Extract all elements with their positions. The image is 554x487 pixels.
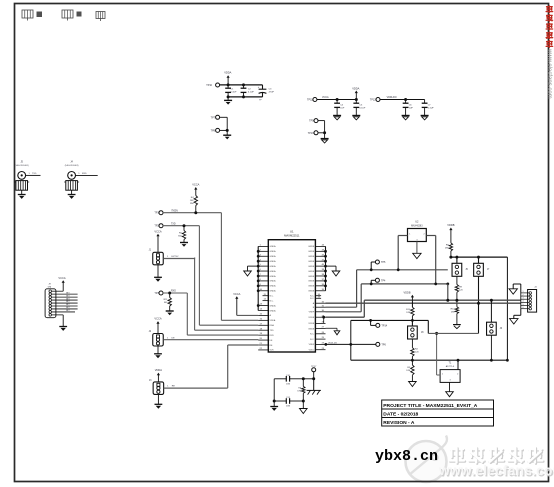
svg-text:N.C.: N.C.: [310, 339, 315, 341]
transformer T1 label: [446, 363, 455, 368]
svg-text:C4: C4: [340, 104, 344, 106]
svg-text:GNDB: GNDB: [308, 251, 315, 253]
ground J8 bottom hook: [510, 309, 521, 324]
test point TP1: [154, 211, 163, 215]
power flag VDDA J7: [155, 368, 162, 382]
svg-text:C3: C3: [269, 89, 273, 91]
wire J13 top riser: [490, 300, 492, 322]
wire J6 out: [163, 337, 258, 340]
svg-text:GNDA: GNDA: [270, 280, 277, 283]
svg-text:GNDB: GNDB: [308, 246, 315, 248]
wire VCCA to pin15: [237, 314, 258, 316]
resistor R2: [411, 339, 420, 360]
svg-text:3: 3: [523, 298, 524, 300]
wire TP10 to caps: [219, 83, 262, 86]
resistor R4: [190, 196, 198, 213]
svg-text:DATE - 02/2018: DATE - 02/2018: [383, 411, 418, 417]
svg-text:GNDA: GNDA: [270, 250, 277, 253]
title block revision: [383, 420, 415, 426]
svg-text:GNDB: GNDB: [308, 281, 315, 283]
svg-text:SLR: SLR: [270, 350, 275, 352]
svg-text:ADTT1-6: ADTT1-6: [446, 365, 455, 368]
diode block U2 body: [408, 229, 427, 242]
watermark logo swirl: [406, 436, 448, 483]
svg-text:0.1UF: 0.1UF: [359, 108, 366, 110]
svg-text:/TXEN: /TXEN: [171, 210, 178, 212]
svg-text:VCCA: VCCA: [58, 276, 65, 280]
wire T1 left leg: [435, 332, 440, 375]
top-left mark 3: [96, 12, 105, 22]
test point TP9: [309, 119, 318, 123]
capacitor C3 polarized: [258, 85, 275, 101]
ground TP9 TP13: [321, 133, 329, 143]
svg-text:DNI: DNI: [451, 312, 455, 314]
capacitor C7: [422, 100, 435, 116]
wire TP14 lead: [371, 320, 377, 325]
capacitor C2: [241, 85, 255, 97]
op-amp U1 body: [268, 240, 315, 352]
svg-text:VDDB: VDDB: [404, 292, 411, 295]
svg-text:RE: RE: [172, 386, 176, 388]
svg-text:1: 1: [523, 291, 524, 293]
svg-text:120: 120: [415, 352, 419, 354]
svg-text:TP6: TP6: [381, 343, 386, 346]
test point TP10: [206, 83, 219, 87]
ground J7: [155, 394, 163, 408]
svg-text:J3: J3: [149, 380, 152, 382]
op-amp U1 right pins: [308, 245, 325, 352]
svg-text:N.C.: N.C.: [270, 296, 275, 298]
jumper J13: [487, 322, 503, 335]
wire TP5 lead: [371, 262, 376, 270]
svg-text:DE: DE: [172, 337, 176, 339]
wire GNDA bus: [257, 246, 260, 310]
svg-text:GNDB: GNDB: [308, 256, 315, 258]
svg-text:T1: T1: [449, 363, 452, 365]
test point TP15: [311, 366, 317, 372]
wire Y line: [326, 268, 448, 307]
wire VCCA rail: [317, 98, 358, 101]
wire TXEN drop: [221, 213, 258, 321]
svg-text:DNI: DNI: [445, 248, 449, 250]
ground GNDB pin27: [326, 328, 340, 335]
svg-text:6: 6: [523, 307, 524, 309]
svg-text:DNI: DNI: [286, 406, 290, 408]
svg-text:RXD: RXD: [82, 173, 87, 175]
svg-text:1: 1: [78, 173, 80, 175]
svg-text:5: 5: [523, 304, 524, 306]
wire cap cluster left: [273, 379, 276, 403]
svg-text:DNI: DNI: [48, 286, 52, 288]
svg-text:EXT5V: EXT5V: [172, 256, 179, 258]
wire RT line: [349, 319, 428, 360]
svg-text:1: 1: [29, 173, 31, 175]
resistor R8: [445, 243, 453, 257]
svg-text:TP12: TP12: [370, 99, 376, 102]
wire B line: [326, 302, 521, 305]
ground R13: [453, 325, 461, 329]
power flag VDDA 2: [352, 86, 359, 99]
svg-text:N.C.: N.C.: [270, 300, 275, 302]
ground J1: [154, 265, 162, 282]
capacitor C4: [334, 100, 345, 116]
wire J8 pin bus: [521, 291, 529, 309]
wire J11 bottom run: [428, 332, 478, 334]
svg-text:N.C.: N.C.: [310, 334, 315, 336]
capacitor C1: [225, 85, 237, 97]
ground J9 header: [59, 315, 67, 331]
jumper J10: [452, 257, 468, 276]
wire J11 column: [478, 276, 480, 333]
svg-text:TP9: TP9: [309, 120, 314, 123]
svg-text:GNDA: GNDA: [270, 275, 277, 278]
svg-text:J6: J6: [500, 328, 503, 330]
ground R12: [409, 382, 417, 387]
op-amp U1 left pins: [258, 245, 276, 352]
svg-text:DNI: DNI: [406, 312, 410, 314]
ground C4: [333, 116, 341, 120]
svg-text:TXD: TXD: [270, 330, 275, 332]
red banner glyphs: [546, 6, 553, 47]
svg-text:C1: C1: [231, 89, 235, 91]
svg-text:TXD: TXD: [32, 173, 37, 175]
jumper J1: [149, 250, 164, 265]
jumper J6: [149, 331, 164, 346]
svg-text:10K: 10K: [190, 200, 194, 202]
svg-text:VDDB: VDDB: [447, 223, 454, 227]
svg-text:VCCA: VCCA: [233, 292, 240, 296]
svg-text:J9: J9: [48, 284, 51, 286]
ground GNDB hook: [326, 266, 340, 276]
wire J5 TXD: [26, 173, 41, 175]
wire J7 riser: [228, 345, 259, 388]
svg-text:0.1UF: 0.1UF: [428, 108, 435, 110]
wire RXD drop: [187, 293, 258, 335]
svg-text:GNDB: GNDB: [308, 286, 315, 288]
svg-text:VCCA: VCCA: [322, 96, 329, 99]
ground J8 top hook: [509, 284, 521, 294]
svg-text:GNDA: GNDA: [270, 304, 277, 307]
resistor R13: [451, 300, 459, 324]
wire J4 RXD: [76, 173, 98, 175]
test point TP8: [211, 128, 220, 132]
diode block U2 label: [411, 221, 423, 228]
svg-text:DNI: DNI: [190, 203, 194, 205]
power flag VCCA J6: [154, 317, 161, 334]
svg-text:(140-0701-801): (140-0701-801): [15, 165, 29, 167]
svg-text:VREF: VREF: [309, 344, 315, 346]
wire TP9 TP13 join: [318, 121, 326, 135]
svg-text:1UF: 1UF: [340, 108, 345, 110]
svg-text:VDDA: VDDA: [224, 71, 231, 75]
svg-text:TP17: TP17: [311, 366, 317, 368]
svg-text:GNDB: GNDB: [308, 266, 315, 268]
svg-text:VDDL: VDDL: [309, 350, 315, 352]
connector J5 (BNC): [14, 162, 29, 191]
wire TP15 lead: [303, 371, 315, 380]
wire TXD: [163, 223, 200, 227]
svg-text:VREF: VREF: [309, 312, 315, 314]
svg-text:GNDA: GNDA: [270, 265, 277, 268]
svg-text:VCCA: VCCA: [154, 229, 161, 233]
svg-text:TP11: TP11: [307, 99, 313, 102]
ground below C1: [224, 97, 232, 105]
wire VDDB rail drop: [506, 257, 508, 360]
top-left mark 2: [62, 10, 82, 21]
svg-text:120: 120: [459, 290, 463, 292]
svg-text:GNDB: GNDB: [308, 261, 315, 263]
svg-text:J4: J4: [534, 286, 537, 288]
wire U2 left leg: [398, 236, 407, 270]
wire TXD drop: [199, 226, 258, 326]
svg-text:4: 4: [523, 301, 524, 303]
svg-text:VDDA: VDDA: [155, 368, 162, 372]
wire VDDLDO rail: [380, 98, 425, 101]
capacitor C6: [403, 100, 414, 116]
svg-text:0.1UF: 0.1UF: [231, 92, 238, 94]
test point TP6: [376, 342, 387, 346]
svg-text:RXD: RXD: [171, 291, 176, 293]
power flag VCCA R4: [192, 183, 199, 196]
svg-text:TP8: TP8: [211, 129, 216, 132]
connector J8 body: [528, 286, 538, 312]
test point TP4: [375, 278, 386, 282]
svg-text:R2: R2: [415, 349, 419, 351]
net label VDDLDO: [387, 96, 397, 99]
svg-text:C2: C2: [248, 89, 252, 91]
svg-text:DNI: DNI: [406, 370, 410, 372]
capacitor C10: [274, 375, 303, 385]
svg-text:TP7: TP7: [211, 116, 216, 119]
svg-text:REVISION - A: REVISION - A: [383, 420, 415, 426]
wire TP4 lead: [371, 280, 376, 284]
watermark ybx8.cn: [375, 448, 438, 465]
svg-text:VDDLDO: VDDLDO: [328, 342, 337, 344]
svg-text:U2: U2: [415, 221, 419, 224]
svg-text:GNDA: GNDA: [270, 309, 277, 312]
net label VDDLDO pin23: [328, 342, 337, 344]
ground R5: [180, 243, 188, 247]
svg-text:MAX40263: MAX40263: [411, 224, 423, 227]
svg-text:J7: J7: [487, 269, 490, 271]
wire cap bottoms to ground: [227, 95, 263, 98]
svg-text:VDDLDO: VDDLDO: [387, 96, 397, 99]
wire U2 right leg: [426, 236, 435, 285]
svg-text:GNDB: GNDB: [308, 328, 315, 330]
svg-text:VCCA: VCCA: [154, 317, 161, 321]
svg-text:TP: TP: [259, 99, 262, 101]
watermark chinese glyphs: [449, 447, 543, 463]
svg-text:TP13: TP13: [308, 132, 314, 135]
svg-text:TP14: TP14: [381, 324, 387, 327]
resistor R11: [164, 293, 172, 311]
power flag VCCA J1: [154, 229, 161, 252]
svg-text:GNDA: GNDA: [270, 245, 277, 248]
svg-text:TXD: TXD: [171, 223, 176, 225]
ground J4: [68, 190, 76, 199]
resistor R12: [406, 360, 414, 381]
test point TP3: [154, 291, 163, 295]
jumper J7: [149, 380, 164, 394]
svg-text:0.1UF: 0.1UF: [248, 92, 255, 94]
svg-text:+: +: [258, 86, 260, 89]
test point TP7: [211, 115, 220, 119]
test point TP14: [376, 323, 388, 327]
power flag VCCA pin15: [233, 292, 240, 316]
resistor R10: [406, 302, 414, 321]
svg-text:1UF: 1UF: [409, 108, 414, 110]
title block date: [383, 411, 418, 417]
svg-text:PROJECT TITLE - MAXM22511_EVKI: PROJECT TITLE - MAXM22511_EVKIT_A: [383, 403, 478, 409]
resistor R5: [178, 226, 186, 243]
wire J13 bottom riser: [490, 336, 492, 361]
svg-text:J8: J8: [421, 332, 424, 334]
ground C6: [402, 116, 410, 120]
wire GNDB bus: [324, 246, 327, 290]
svg-text:VDDB: VDDB: [308, 317, 314, 319]
ground U2: [413, 242, 421, 259]
wire term line: [351, 359, 509, 362]
op-amp U1 label: [284, 230, 300, 238]
svg-text:J5: J5: [465, 269, 468, 271]
test point TP2: [154, 224, 163, 228]
connector J4 (BNC): [64, 162, 79, 191]
wire A line: [322, 299, 520, 324]
svg-text:J2: J2: [149, 331, 152, 333]
title block box: [382, 400, 494, 426]
power flag VDDB mid: [404, 292, 414, 302]
svg-text:J5: J5: [20, 162, 23, 164]
jumper J11: [474, 257, 490, 276]
ground R11: [166, 311, 174, 315]
svg-text:VDDA: VDDA: [270, 319, 276, 322]
chassis ground: [307, 379, 321, 395]
svg-text:1: 1: [167, 386, 169, 388]
capacitor C11: [274, 397, 303, 407]
svg-text:TP5: TP5: [381, 261, 386, 264]
wire VDDB rail: [449, 256, 507, 259]
net label VCCA: [322, 96, 329, 99]
svg-text:VDDA: VDDA: [352, 86, 359, 90]
svg-text:GNDB: GNDB: [308, 276, 315, 278]
wire J7 out: [164, 386, 228, 388]
svg-text:C7: C7: [428, 104, 432, 106]
ground cap cluster left: [270, 401, 278, 411]
svg-text:N.C.: N.C.: [310, 298, 315, 300]
power flag VCCA header: [58, 276, 65, 291]
wire J1 out: [163, 256, 194, 258]
ground J6: [154, 346, 162, 358]
transformer T1 body: [440, 370, 460, 383]
wire Z line: [326, 283, 450, 312]
ground C5: [352, 116, 360, 120]
test point TP12: [370, 98, 380, 102]
ground T1: [446, 382, 454, 396]
svg-text:C6: C6: [409, 104, 413, 106]
ground J5: [18, 190, 26, 199]
wire TXEN: [163, 210, 222, 214]
svg-text:J1: J1: [149, 250, 152, 252]
svg-text:VDDB: VDDB: [308, 323, 314, 325]
svg-text:DNI: DNI: [286, 383, 290, 385]
svg-text:TP4: TP4: [381, 279, 386, 282]
svg-text:J4: J4: [70, 162, 73, 164]
capacitor C5: [353, 100, 366, 116]
wire TP6 lead: [324, 343, 376, 346]
svg-text:(140-0701-801): (140-0701-801): [65, 165, 79, 167]
jumper J12: [408, 320, 425, 339]
ground GNDA hook: [244, 266, 259, 276]
test point TP11: [307, 98, 317, 102]
svg-text:GNDA: GNDA: [270, 290, 277, 293]
svg-text:C5: C5: [359, 104, 363, 106]
top-left mark 1: [22, 10, 42, 21]
resistor R6: [298, 377, 305, 402]
wires J9 header nets: [52, 291, 78, 315]
svg-text:DNI: DNI: [298, 391, 302, 393]
svg-text:47UF: 47UF: [269, 92, 275, 94]
svg-text:GNDA: GNDA: [270, 260, 277, 263]
power flag VDDA: [224, 71, 231, 86]
ground TP7 TP8: [223, 130, 231, 139]
connector J9 header: [45, 284, 56, 318]
svg-text:GNDB: GNDB: [308, 291, 315, 293]
ground cap cluster right: [300, 401, 308, 414]
svg-text:GNDA: GNDA: [270, 255, 277, 258]
svg-text:R11: R11: [164, 299, 169, 301]
title block project title: [383, 403, 478, 409]
svg-text:VCCA: VCCA: [192, 183, 199, 187]
ground C7: [421, 116, 429, 120]
test point TP5: [375, 260, 386, 264]
svg-text:GNDA: GNDA: [270, 285, 277, 288]
svg-text:GNDA: GNDA: [270, 270, 277, 273]
wire T1 right leg: [457, 359, 460, 370]
power flag VDDB R8: [447, 223, 454, 243]
svg-text:RXD: RXD: [270, 335, 275, 337]
svg-text:MAXM22511: MAXM22511: [284, 234, 300, 238]
wire TP7 TP8 join: [219, 117, 228, 132]
svg-text:GNDB: GNDB: [308, 271, 315, 273]
svg-text:U1: U1: [290, 230, 294, 234]
wire J1 drop: [195, 258, 259, 331]
svg-text:R9: R9: [459, 286, 463, 288]
svg-text:TP10: TP10: [206, 84, 212, 87]
svg-text:2: 2: [523, 294, 524, 296]
svg-text:www.elecfans.com: www.elecfans.com: [546, 48, 552, 99]
watermark url text: [439, 463, 554, 478]
wire RXD: [163, 291, 188, 295]
svg-text:RSA: RSA: [270, 324, 275, 327]
red banner url: [546, 48, 552, 99]
resistor R9: [455, 276, 463, 300]
wire R10 column top: [411, 302, 413, 308]
test point TP13: [308, 131, 318, 135]
